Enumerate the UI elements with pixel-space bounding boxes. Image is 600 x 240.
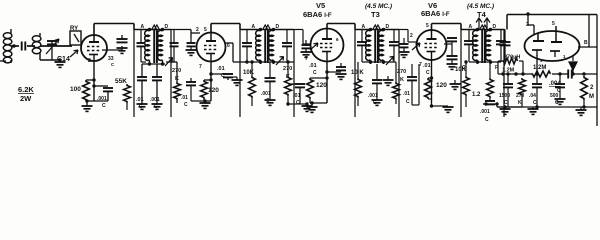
label 120 V6	[436, 82, 447, 89]
svg-text:C: C	[533, 100, 537, 106]
wire stub left	[0, 60, 6, 62]
svg-text:6.2K: 6.2K	[18, 85, 34, 94]
svg-text:2W: 2W	[20, 94, 32, 103]
capacitor .01 cathode V4	[209, 72, 233, 80]
ground	[301, 52, 312, 57]
wire	[498, 50, 505, 74]
svg-text:K: K	[400, 77, 404, 83]
ground 500	[555, 99, 566, 104]
resistor 120 V5	[307, 76, 329, 103]
svg-text:A: A	[362, 24, 366, 30]
svg-text:A: A	[141, 24, 145, 30]
wire audio line	[498, 72, 531, 75]
agc arrow V5	[310, 43, 318, 50]
svg-text:100: 100	[70, 86, 81, 93]
label .001 C can1	[150, 97, 160, 110]
label .01 C V4 b	[181, 95, 188, 108]
label C14	[57, 56, 70, 63]
svg-text:.01: .01	[293, 93, 301, 99]
ground	[300, 102, 313, 111]
capacitor tune can2 b	[282, 30, 292, 63]
label 270uH	[504, 55, 520, 61]
wire plate V6	[432, 24, 462, 31]
wire B riser	[588, 15, 590, 48]
wire	[310, 101, 327, 104]
label 1.2M det	[533, 65, 546, 71]
wire can1 bottom	[142, 62, 165, 65]
ground	[186, 50, 197, 55]
wire	[286, 102, 300, 105]
ground	[200, 101, 211, 108]
capacitor below T4	[483, 101, 499, 106]
svg-text:120: 120	[208, 87, 219, 94]
capacitor grid V5	[302, 40, 311, 52]
tube V6	[417, 30, 447, 60]
wire B+ bus	[507, 15, 597, 30]
capacitor .001 T3	[372, 64, 382, 100]
label V6	[428, 1, 437, 10]
svg-text:.01: .01	[309, 63, 317, 69]
resistor 1.2M horizontal	[531, 71, 551, 77]
svg-text:C: C	[504, 100, 508, 106]
wire cathode V5	[326, 62, 328, 104]
svg-text:5: 5	[552, 21, 555, 27]
label 10K can2	[243, 70, 255, 76]
svg-text:120: 120	[316, 82, 327, 89]
diode arrow det	[569, 56, 577, 74]
label 500 C	[550, 93, 559, 106]
svg-text:D: D	[493, 24, 497, 30]
svg-text:7: 7	[199, 64, 202, 70]
transformer can 1	[134, 24, 171, 117]
svg-text:10K: 10K	[455, 67, 467, 73]
svg-text:7: 7	[305, 56, 308, 62]
svg-text:.001: .001	[150, 97, 160, 103]
svg-text:A: A	[252, 24, 256, 30]
resistor 10K T3	[355, 62, 362, 106]
label 2M	[589, 85, 594, 100]
svg-text:2: 2	[410, 33, 413, 39]
label 55K	[115, 78, 127, 85]
wire plate V3	[94, 24, 134, 36]
label 6BA6 I-F V6	[421, 9, 450, 18]
capacitor grid V4	[187, 38, 196, 50]
capacitor 1500	[503, 74, 513, 107]
label 1.2	[472, 92, 481, 98]
label 10K T4	[455, 67, 467, 73]
svg-text:6: 6	[227, 43, 230, 49]
capacitor tune T4 b	[496, 30, 506, 63]
label 120 V5	[316, 82, 327, 89]
wire det plate right	[578, 46, 597, 48]
ground T3 right	[383, 76, 394, 85]
tube V4	[197, 33, 226, 62]
label .01 C V6 cathode	[423, 63, 431, 76]
svg-text:.001: .001	[261, 91, 271, 97]
svg-text:M: M	[589, 94, 594, 100]
detector tube V7	[525, 26, 580, 61]
label T4	[477, 10, 487, 19]
svg-text:D: D	[276, 24, 280, 30]
capacitor tune T4 a	[464, 30, 474, 63]
wire screen V4	[225, 43, 247, 62]
pin 6 V5	[336, 37, 339, 42]
svg-text:D: D	[165, 24, 169, 30]
ground	[443, 106, 454, 112]
label .01 C V4	[217, 66, 225, 79]
label 05 C	[97, 96, 107, 109]
ground	[137, 104, 148, 109]
svg-text:C14: C14	[57, 56, 70, 63]
svg-text:D: D	[386, 24, 390, 30]
pin labels V4	[199, 27, 230, 70]
resistor 10K can2	[249, 60, 256, 106]
label C T4	[462, 65, 498, 71]
wire bottom right	[497, 105, 597, 108]
transformer can 2	[240, 24, 294, 117]
wire plate V4	[211, 24, 240, 33]
svg-text:10K: 10K	[243, 70, 255, 76]
label 100	[70, 86, 81, 93]
svg-text:C: C	[406, 99, 410, 105]
wire	[85, 99, 108, 102]
label .001 C T3	[368, 93, 378, 106]
label 270 can2	[283, 66, 292, 80]
svg-text:5: 5	[426, 23, 429, 29]
svg-text:.01: .01	[181, 95, 188, 101]
capacitor tune can1 a	[137, 30, 147, 63]
svg-text:.01: .01	[136, 97, 144, 103]
trimmer capacitor C14	[46, 39, 59, 60]
label 4.5 MC T3	[365, 3, 392, 10]
svg-text:.01: .01	[403, 91, 410, 97]
svg-text:270: 270	[397, 69, 406, 75]
wire can3 bottom	[362, 60, 394, 64]
tube V5	[311, 29, 344, 62]
resistor 270 can2	[285, 60, 292, 104]
capacitor cathode V6	[447, 56, 458, 64]
capacitor cathode V5	[325, 63, 346, 74]
transformer can T4	[461, 24, 504, 117]
svg-text:A: A	[469, 24, 473, 30]
svg-text:5: 5	[204, 27, 207, 33]
label 4.5 MC T4	[467, 3, 494, 10]
agc arrow V3	[70, 50, 78, 57]
label 120 V4	[208, 87, 219, 94]
resistor 120 V6	[425, 76, 434, 99]
svg-text:K: K	[286, 74, 290, 80]
svg-text:C: C	[426, 70, 430, 76]
label .01 C can2b	[293, 93, 301, 106]
wire	[430, 103, 444, 108]
svg-text:C: C	[221, 73, 225, 79]
wire cathode V6	[431, 60, 433, 103]
wire grid V5	[294, 30, 311, 45]
svg-text:270: 270	[516, 93, 525, 99]
capacitor .01 can1	[137, 64, 147, 104]
capacitor .01 can2b	[288, 84, 305, 104]
wire	[497, 104, 522, 107]
capacitor grid V6	[400, 38, 409, 52]
resistor in T4	[487, 62, 494, 101]
svg-text:V5: V5	[316, 1, 325, 10]
label .01 C V5	[309, 63, 317, 76]
capacitor .04	[532, 74, 542, 107]
capacitor 500	[555, 74, 565, 99]
svg-text:120: 120	[436, 82, 447, 89]
coil L2	[32, 33, 41, 54]
label .004 C	[549, 81, 561, 94]
pin 7 V5	[305, 56, 308, 62]
svg-text:270µH: 270µH	[504, 55, 520, 61]
svg-text:1500: 1500	[499, 93, 510, 99]
pin labels det	[526, 21, 555, 28]
svg-text:C: C	[102, 103, 106, 109]
capacitor cathode V3	[92, 84, 113, 101]
choke 270uH	[498, 58, 523, 74]
resistor 270K det	[519, 78, 526, 107]
ground	[232, 77, 243, 85]
svg-text:.001: .001	[480, 109, 490, 115]
coil L1 input	[3, 29, 12, 63]
capacitor tune can1 b	[166, 30, 179, 63]
slug arrow can1	[165, 58, 173, 67]
svg-text:270: 270	[172, 68, 181, 74]
ground	[447, 64, 458, 69]
agc arrow V6	[412, 43, 420, 50]
capacitor .004	[552, 70, 597, 79]
label .01 C can1	[136, 97, 144, 110]
svg-text:7: 7	[419, 62, 422, 68]
wire	[191, 99, 211, 102]
svg-text:T3: T3	[371, 10, 380, 19]
capacitor .01 cathode V4 b	[186, 78, 196, 101]
wire cathode V3	[93, 61, 95, 101]
label .001 C can2	[261, 91, 271, 104]
svg-text:.04: .04	[529, 93, 536, 99]
label .001 C T4	[480, 109, 490, 123]
ground	[372, 100, 383, 105]
capacitor screen V6	[444, 38, 457, 56]
ground	[152, 104, 163, 109]
ground T4 left	[450, 80, 461, 89]
capacitor tune can2	[242, 30, 252, 63]
resistor 10K T4	[463, 60, 470, 107]
svg-text:C: C	[184, 102, 188, 108]
pin labels V6	[410, 23, 429, 68]
label V5	[316, 1, 325, 10]
svg-text:K: K	[518, 100, 522, 106]
resistor 55K	[124, 84, 131, 110]
label 270K	[172, 68, 181, 82]
svg-text:270: 270	[283, 66, 292, 72]
capacitor screen bypass V3	[117, 35, 128, 42]
svg-text:1.2M: 1.2M	[533, 65, 546, 71]
svg-text:2: 2	[196, 27, 199, 33]
svg-text:T4: T4	[477, 10, 487, 19]
label 1.2M left	[502, 68, 515, 74]
label B	[584, 40, 588, 46]
svg-text:2: 2	[88, 58, 91, 64]
tuning arrows T4	[476, 18, 490, 29]
capacitor tune T3 a	[357, 30, 367, 63]
ground	[307, 103, 318, 112]
ground	[399, 52, 410, 57]
label 6BA6 I-F V5	[303, 10, 332, 19]
relay box RY	[70, 31, 81, 45]
wire det cathode out	[536, 55, 538, 74]
wire right edge	[596, 15, 598, 127]
slug arrow can2	[276, 57, 284, 66]
tube V3	[81, 35, 107, 61]
wire plate V5	[327, 24, 355, 30]
svg-text:55K: 55K	[115, 78, 127, 85]
capacitor .001 can2	[265, 62, 276, 100]
svg-text:C: C	[485, 117, 489, 123]
resistor 120 V4	[201, 78, 213, 101]
label 6.2K 2W	[18, 85, 34, 103]
ground below T4	[500, 105, 511, 114]
svg-text:C: C	[313, 70, 317, 76]
label 10K T3	[351, 70, 364, 76]
svg-text:K: K	[175, 76, 179, 82]
wire node A	[11, 44, 19, 47]
label T3	[371, 10, 380, 19]
resistor 270K T3	[393, 62, 400, 104]
resistor 100	[83, 78, 96, 101]
pin 2 V4	[196, 27, 199, 33]
wire can2 bottom	[245, 60, 294, 64]
wire grid V3	[47, 45, 72, 47]
label .01 C agc	[403, 91, 410, 105]
wire	[40, 46, 62, 62]
svg-text:(4.5 MC.): (4.5 MC.)	[467, 3, 494, 10]
svg-text:.001: .001	[368, 93, 378, 99]
ground	[265, 100, 276, 105]
svg-text:C: C	[296, 100, 300, 106]
resistor 270K	[171, 62, 180, 103]
ground	[336, 74, 347, 79]
pin labels det 2	[540, 54, 566, 63]
pin 2 V3	[88, 58, 91, 64]
svg-text:.01: .01	[423, 63, 431, 69]
ground	[82, 101, 93, 111]
label 1500 C	[499, 93, 510, 106]
label 270K det	[516, 93, 525, 106]
svg-text:(4.5 MC.): (4.5 MC.)	[365, 3, 392, 10]
label RY	[70, 26, 78, 32]
resistor 2M	[581, 76, 588, 107]
capacitor .01 agc T3	[407, 64, 419, 105]
ground	[576, 107, 587, 115]
svg-text:.01: .01	[217, 66, 225, 72]
slug arrow T3	[386, 57, 394, 66]
label 33 C	[108, 56, 115, 67]
label 270K T3	[397, 69, 406, 83]
wire grid V4	[171, 30, 200, 39]
transformer can T3	[355, 24, 399, 117]
svg-text:10 K: 10 K	[351, 70, 364, 76]
capacitor .001 can1	[152, 64, 162, 104]
ground	[55, 62, 66, 67]
svg-text:2: 2	[526, 22, 529, 28]
svg-text:B: B	[584, 40, 588, 46]
capacitor tune T3 b	[389, 30, 399, 63]
wire det pin2 riser	[526, 12, 534, 34]
capacitor C13 series	[22, 42, 35, 51]
capacitor det input	[500, 30, 511, 51]
wire cathode V4	[210, 62, 212, 102]
ground	[528, 107, 539, 114]
ground	[117, 48, 128, 53]
wire screen V3	[102, 46, 122, 50]
wire can4 bottom	[469, 60, 501, 64]
label .04 C	[529, 93, 537, 106]
svg-text:1.2: 1.2	[472, 92, 481, 98]
wire grid V6	[399, 30, 417, 43]
